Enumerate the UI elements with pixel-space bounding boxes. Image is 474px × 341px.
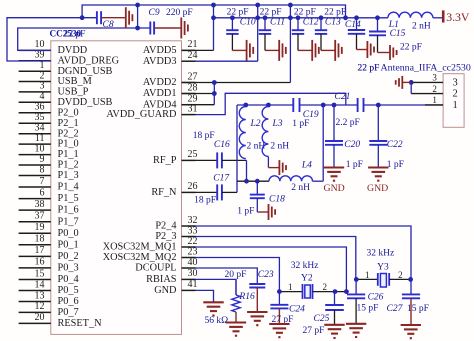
capacitor C26	[355, 279, 357, 294]
svg-text:DVDD_USB: DVDD_USB	[58, 97, 113, 108]
capacitor C22	[377, 105, 379, 141]
pin 37 P1_7	[19, 221, 51, 223]
svg-text:32: 32	[188, 215, 198, 226]
svg-text:C22: C22	[387, 140, 403, 150]
svg-text:22 pF: 22 pF	[358, 63, 380, 73]
wire antenna ground lead	[402, 81, 411, 83]
pin 6 P1_5	[19, 198, 51, 200]
wire pin33 route	[196, 237, 356, 280]
ground for C22	[368, 166, 388, 168]
ground for C13	[334, 40, 336, 61]
wire pin31 route	[196, 93, 346, 114]
pin 23 XOSC32M_MQ2	[182, 257, 196, 259]
pin 25 RF_P	[182, 159, 196, 161]
junction pins27-28	[212, 80, 217, 85]
svg-text:2: 2	[453, 89, 458, 100]
svg-text:38: 38	[35, 199, 45, 210]
pin 15 P0_4	[19, 279, 51, 281]
svg-text:14: 14	[35, 279, 45, 290]
svg-text:39: 39	[35, 50, 45, 61]
wire Y2 row left	[279, 291, 302, 293]
wire pin28 run	[182, 93, 215, 95]
pin 22 XOSC32M_MQ1	[182, 246, 196, 248]
svg-text:9: 9	[40, 154, 45, 165]
ground for pin41 GND	[203, 301, 223, 303]
junction C24 top	[277, 289, 282, 294]
svg-text:AVDD_DREG: AVDD_DREG	[58, 55, 120, 66]
svg-text:3: 3	[432, 73, 437, 83]
svg-text:40: 40	[188, 257, 198, 268]
pin 10 DVDD	[19, 49, 51, 51]
wire pin27 run	[182, 82, 291, 84]
junction pin24 riser top	[255, 3, 260, 8]
svg-text:22 pF: 22 pF	[260, 8, 282, 18]
svg-text:20: 20	[35, 312, 45, 323]
pin 12 P0_7	[19, 311, 51, 313]
wire left riser	[236, 105, 238, 192]
pin 1 DGND_USB	[19, 70, 51, 72]
junction C14 top	[354, 15, 359, 20]
svg-text:32 kHz: 32 kHz	[367, 249, 395, 259]
svg-text:C14: C14	[345, 20, 361, 30]
capacitor C9	[149, 22, 151, 35]
svg-text:18: 18	[35, 234, 45, 245]
svg-text:19: 19	[35, 222, 45, 233]
junction pin27 riser rail	[288, 15, 293, 20]
wire pin24 riser	[257, 5, 259, 61]
op-amp U1 CC2530 chip body	[51, 41, 182, 335]
svg-text:P0_3: P0_3	[58, 263, 79, 274]
svg-text:AVDD2: AVDD2	[143, 77, 177, 88]
svg-text:22 pF: 22 pF	[400, 43, 422, 53]
svg-text:3: 3	[453, 77, 458, 88]
svg-text:17: 17	[35, 245, 45, 256]
svg-text:RBIAS: RBIAS	[146, 274, 177, 285]
pin 2 USB_M	[19, 81, 51, 83]
svg-text:21: 21	[188, 39, 198, 50]
wire C15 to ground	[378, 52, 391, 54]
ground for R16	[226, 321, 246, 323]
wire pin41 route	[196, 290, 214, 302]
svg-text:35: 35	[35, 112, 45, 123]
svg-text:Y2: Y2	[301, 273, 313, 283]
svg-text:P1_0: P1_0	[58, 139, 79, 150]
svg-text:DVDD: DVDD	[58, 45, 88, 56]
pin 18 P0_1	[19, 244, 51, 246]
svg-text:C18: C18	[269, 195, 285, 205]
inductor L4	[269, 176, 313, 181]
svg-text:2.2 pF: 2.2 pF	[336, 118, 360, 128]
svg-text:18 pF: 18 pF	[193, 131, 215, 141]
svg-text:P1_5: P1_5	[58, 193, 79, 204]
wire pin21 riser	[213, 5, 215, 50]
wire C10 to ground	[232, 49, 246, 51]
svg-text:3.3V: 3.3V	[446, 10, 470, 24]
wire C11 to ground	[265, 49, 279, 51]
wire pin23 route	[196, 258, 280, 292]
svg-text:P1_3: P1_3	[58, 170, 79, 181]
ground for C9	[180, 18, 182, 39]
wire Y3 row right	[389, 278, 411, 280]
inductor L1	[388, 12, 433, 18]
svg-text:C20: C20	[344, 140, 360, 150]
ground for C12	[311, 40, 313, 61]
pin 24 AVDD3	[182, 60, 196, 62]
crystal Y2	[302, 284, 304, 299]
capacitor C14	[356, 18, 358, 30]
capacitor C10	[231, 18, 233, 30]
wire L4 riser	[322, 105, 324, 181]
pin 13 P0_6	[19, 301, 51, 303]
svg-text:AVDD3: AVDD3	[143, 56, 177, 67]
ground for C14	[366, 41, 368, 58]
pin 19 P0_0	[19, 232, 51, 234]
svg-text:P0_1: P0_1	[58, 239, 79, 250]
pin 11 P1_0	[19, 143, 51, 145]
junction antenna pin3	[409, 80, 414, 85]
svg-text:22 pF: 22 pF	[324, 8, 346, 18]
svg-text:2 nH: 2 nH	[291, 183, 310, 193]
pin 32 P2_4	[182, 225, 196, 227]
pin 29 AVDD4	[182, 104, 196, 106]
svg-text:1: 1	[288, 282, 293, 292]
inductor L2	[239, 107, 245, 159]
wire C9 to ground	[154, 27, 181, 29]
junction pin21 riser rail	[211, 15, 216, 20]
junction C15 top	[375, 15, 380, 20]
svg-text:12: 12	[35, 301, 45, 312]
svg-text:P1_2: P1_2	[58, 160, 79, 171]
junction C20 top	[332, 103, 337, 108]
junction C26 top	[354, 277, 359, 282]
svg-text:15: 15	[35, 268, 45, 279]
svg-text:XOSC32M_MQ2: XOSC32M_MQ2	[103, 252, 177, 263]
svg-text:P1_4: P1_4	[58, 182, 79, 193]
pin 38 P1_6	[19, 209, 51, 211]
pin 31 AVDD_GUARD	[182, 114, 196, 116]
svg-text:AVDD1: AVDD1	[143, 88, 177, 99]
junction C22 top	[376, 103, 381, 108]
wire pin10 inner loop to C9	[18, 28, 151, 50]
pin 9 P1_2	[19, 164, 51, 166]
wire C8 to ground	[101, 17, 126, 19]
pin 40 DCOUPL	[182, 267, 196, 269]
svg-text:30: 30	[188, 268, 198, 279]
svg-text:11: 11	[35, 133, 45, 144]
svg-text:RF_P: RF_P	[153, 155, 177, 166]
ground for C26	[346, 323, 366, 325]
svg-text:P2_0: P2_0	[58, 107, 79, 118]
svg-text:P2_2: P2_2	[58, 128, 79, 139]
svg-text:C25: C25	[314, 314, 330, 324]
svg-text:P0_4: P0_4	[58, 274, 79, 285]
crystal Y3	[377, 273, 379, 286]
svg-text:25: 25	[188, 149, 198, 160]
capacitor C18	[256, 181, 258, 194]
svg-text:GND: GND	[154, 285, 177, 296]
svg-text:C8: C8	[103, 20, 114, 30]
wire pins 3-2 tie	[410, 82, 412, 93]
wire pin24 run	[196, 60, 258, 62]
capacitor C23	[249, 283, 265, 285]
junction pin27 riser top	[288, 3, 293, 8]
wire C13 to ground	[321, 49, 335, 51]
svg-text:22: 22	[188, 236, 198, 247]
svg-text:GND: GND	[367, 183, 388, 194]
svg-text:L2: L2	[250, 119, 261, 129]
svg-text:36: 36	[35, 102, 45, 113]
wire pin27 riser	[289, 5, 291, 83]
wire RF_N to C17	[196, 191, 218, 193]
junction bus-rail corner	[343, 15, 348, 20]
svg-text:AVDD_GUARD: AVDD_GUARD	[106, 109, 177, 120]
junction node B left	[244, 179, 249, 184]
ground for C25	[324, 324, 344, 326]
svg-text:13: 13	[35, 290, 45, 301]
junction L3 top	[266, 103, 271, 108]
junction pin21 riser bus	[211, 3, 216, 8]
pin 4 DVDD_USB	[19, 101, 51, 103]
svg-text:P0_0: P0_0	[58, 228, 79, 239]
wire L3 to ground	[267, 157, 269, 168]
capacitor C11	[264, 18, 266, 30]
ground for C15	[389, 45, 391, 60]
svg-text:28: 28	[188, 82, 198, 93]
pin 36 P2_0	[19, 112, 51, 114]
wire pin22 route	[196, 247, 347, 292]
pin 17 P0_2	[19, 255, 51, 257]
junction on bus x137.6	[135, 3, 140, 8]
wire C12 to ground	[298, 49, 312, 51]
svg-text:XOSC32M_MQ1: XOSC32M_MQ1	[103, 242, 177, 253]
svg-text:37: 37	[35, 211, 45, 222]
svg-text:18 pF: 18 pF	[194, 195, 216, 205]
svg-text:2: 2	[432, 84, 437, 94]
capacitor C21	[357, 98, 359, 112]
svg-text:RF_N: RF_N	[151, 187, 177, 198]
pin 35 P2_1	[19, 122, 51, 124]
svg-text:P0_2: P0_2	[58, 251, 79, 262]
pin 41 GND	[182, 289, 196, 291]
svg-text:1 pF: 1 pF	[346, 160, 363, 170]
svg-text:Antenna_IIFA_cc2530: Antenna_IIFA_cc2530	[381, 62, 471, 73]
svg-text:1 pF: 1 pF	[292, 119, 309, 129]
svg-text:4: 4	[40, 91, 45, 102]
pin 14 P0_5	[19, 290, 51, 292]
wire balun rail left	[237, 104, 293, 106]
svg-text:USB_P: USB_P	[58, 87, 89, 98]
svg-text:1: 1	[453, 100, 458, 111]
wire node drop to B	[246, 160, 248, 181]
svg-text:C26: C26	[368, 293, 384, 303]
wire L4 to riser	[313, 180, 324, 182]
svg-text:C15: C15	[390, 29, 406, 39]
capacitor C17	[216, 184, 218, 200]
svg-text:P1_1: P1_1	[58, 149, 79, 160]
svg-text:1: 1	[365, 270, 370, 280]
svg-text:C24: C24	[289, 305, 305, 315]
svg-text:GND: GND	[324, 183, 345, 194]
pin 27 AVDD2	[182, 82, 196, 84]
junction L4 riser	[321, 103, 326, 108]
svg-text:C9: C9	[149, 8, 160, 18]
svg-text:C23: C23	[258, 270, 274, 280]
ground for C27	[401, 324, 421, 326]
svg-text:8: 8	[40, 164, 45, 175]
svg-text:2: 2	[40, 70, 45, 81]
svg-text:L4: L4	[301, 161, 312, 171]
pin 16 P0_3	[19, 267, 51, 269]
svg-text:2 nH: 2 nH	[412, 22, 431, 32]
svg-text:P2_1: P2_1	[58, 118, 79, 129]
svg-text:C13: C13	[325, 17, 341, 27]
junction C12 top	[296, 15, 301, 20]
pin 3 USB_P	[19, 91, 51, 93]
svg-text:27: 27	[188, 71, 198, 82]
svg-text:P2_4: P2_4	[155, 221, 176, 232]
svg-text:15 pF: 15 pF	[357, 303, 379, 313]
svg-text:7: 7	[40, 176, 45, 187]
wire pins27-29 vertical	[213, 83, 215, 105]
junction at (137.6,28)	[135, 26, 140, 31]
svg-text:AVDD5: AVDD5	[143, 45, 177, 56]
svg-text:2: 2	[323, 282, 328, 292]
svg-text:20 pF: 20 pF	[225, 270, 247, 280]
svg-text:22 pF: 22 pF	[64, 30, 86, 40]
ground for C24	[269, 323, 289, 325]
pin 28 AVDD1	[182, 93, 196, 95]
pin 26 RF_N	[182, 191, 196, 193]
wire pin32 route	[196, 226, 412, 279]
capacitor C16	[216, 152, 218, 168]
ground for C10	[246, 40, 248, 61]
svg-text:1 pF: 1 pF	[387, 160, 404, 170]
wire AVDD rail	[214, 17, 388, 19]
inductor L3	[262, 107, 268, 157]
svg-text:C16: C16	[214, 140, 230, 150]
wire C14 to ground	[357, 49, 368, 51]
wire balun rail right	[364, 104, 444, 106]
wire L1 to 3.3V	[433, 17, 443, 19]
svg-text:220 pF: 220 pF	[166, 8, 193, 18]
svg-text:USB_M: USB_M	[58, 76, 92, 87]
svg-text:23: 23	[188, 246, 198, 257]
capacitor C20	[333, 105, 335, 141]
wire node B	[237, 180, 269, 182]
wire Y2 row right	[313, 291, 347, 293]
junction C13 top	[319, 15, 324, 20]
svg-text:15 pF: 15 pF	[407, 304, 429, 314]
connector J1 Antenna box	[443, 74, 464, 128]
svg-text:22 pF: 22 pF	[227, 8, 249, 18]
svg-text:1: 1	[432, 95, 437, 105]
wire C16 to node	[222, 159, 247, 161]
ground for C11	[278, 40, 280, 61]
connector pin 1 stub	[425, 104, 443, 106]
junction C27 top	[408, 277, 413, 282]
junction pin24 riser rail	[255, 15, 260, 20]
svg-text:41: 41	[188, 279, 198, 290]
wire pin30 route	[196, 279, 237, 295]
wire pin40 route	[196, 268, 258, 284]
junction pin28	[212, 91, 217, 96]
wire Y3 row left	[356, 278, 378, 280]
capacitor C15	[377, 18, 379, 32]
svg-text:L1: L1	[388, 20, 399, 30]
pin 8 P1_3	[19, 175, 51, 177]
svg-text:56 kΩ: 56 kΩ	[205, 316, 229, 326]
ground for antenna	[401, 76, 403, 89]
svg-text:C11: C11	[270, 17, 285, 27]
svg-text:C27: C27	[387, 304, 404, 314]
connector pin 3 stub	[411, 81, 443, 83]
svg-text:34: 34	[35, 123, 45, 134]
capacitor C19	[292, 98, 294, 112]
svg-text:1 pF: 1 pF	[237, 207, 254, 217]
ground for L3	[278, 160, 280, 175]
svg-text:P0_5: P0_5	[58, 285, 79, 296]
ground for C18	[268, 204, 270, 220]
pin 10 P1_1	[19, 154, 51, 156]
capacitor C25	[334, 292, 336, 305]
junction C25 top	[333, 289, 338, 294]
svg-text:P0_6: P0_6	[58, 296, 79, 307]
pin 39 AVDD_DREG	[19, 60, 51, 62]
svg-text:3: 3	[40, 81, 45, 92]
junction C10 top	[230, 15, 235, 20]
svg-text:C17: C17	[213, 174, 230, 184]
pin 33 P2_3	[182, 236, 196, 238]
svg-text:P1_6: P1_6	[58, 205, 79, 216]
wire drop x137.6	[137, 5, 139, 28]
wire top bypass bus	[82, 5, 345, 18]
connector pin 2 stub	[411, 93, 443, 95]
pin 7 P1_4	[19, 186, 51, 188]
capacitor C27	[410, 279, 412, 294]
svg-text:32 kHz: 32 kHz	[291, 261, 319, 271]
pin 34 P2_2	[19, 133, 51, 135]
ground for C20	[324, 166, 344, 168]
wire C18 to ground	[257, 211, 268, 213]
svg-text:26: 26	[188, 181, 198, 192]
svg-text:P1_7: P1_7	[58, 216, 79, 227]
node junction at (82,17.7)	[80, 15, 85, 20]
svg-text:R16: R16	[238, 292, 255, 302]
junction L2 top	[243, 103, 248, 108]
svg-text:16: 16	[35, 257, 45, 268]
svg-text:22 pF: 22 pF	[294, 8, 316, 18]
pin 30 RBIAS	[182, 278, 196, 280]
svg-text:P0_7: P0_7	[58, 307, 79, 318]
svg-text:2: 2	[398, 270, 403, 280]
ground for C8	[125, 7, 127, 28]
capacitor C13	[320, 18, 322, 30]
wire C17 to left riser	[222, 191, 237, 193]
junction pin22 drop	[344, 289, 349, 294]
svg-text:DCOUPL: DCOUPL	[135, 263, 176, 274]
wire pin29 run	[182, 104, 215, 106]
svg-text:L3: L3	[272, 119, 283, 129]
svg-text:10: 10	[35, 143, 45, 154]
svg-text:27 pF: 27 pF	[303, 326, 325, 336]
pin 21 AVDD5	[182, 49, 196, 51]
svg-text:C10: C10	[240, 17, 256, 27]
svg-text:P2_3: P2_3	[155, 231, 176, 242]
svg-text:33: 33	[188, 225, 198, 236]
wire pin39 outer loop to C8	[7, 18, 97, 61]
svg-text:10: 10	[35, 39, 45, 50]
svg-text:Y3: Y3	[377, 263, 389, 273]
